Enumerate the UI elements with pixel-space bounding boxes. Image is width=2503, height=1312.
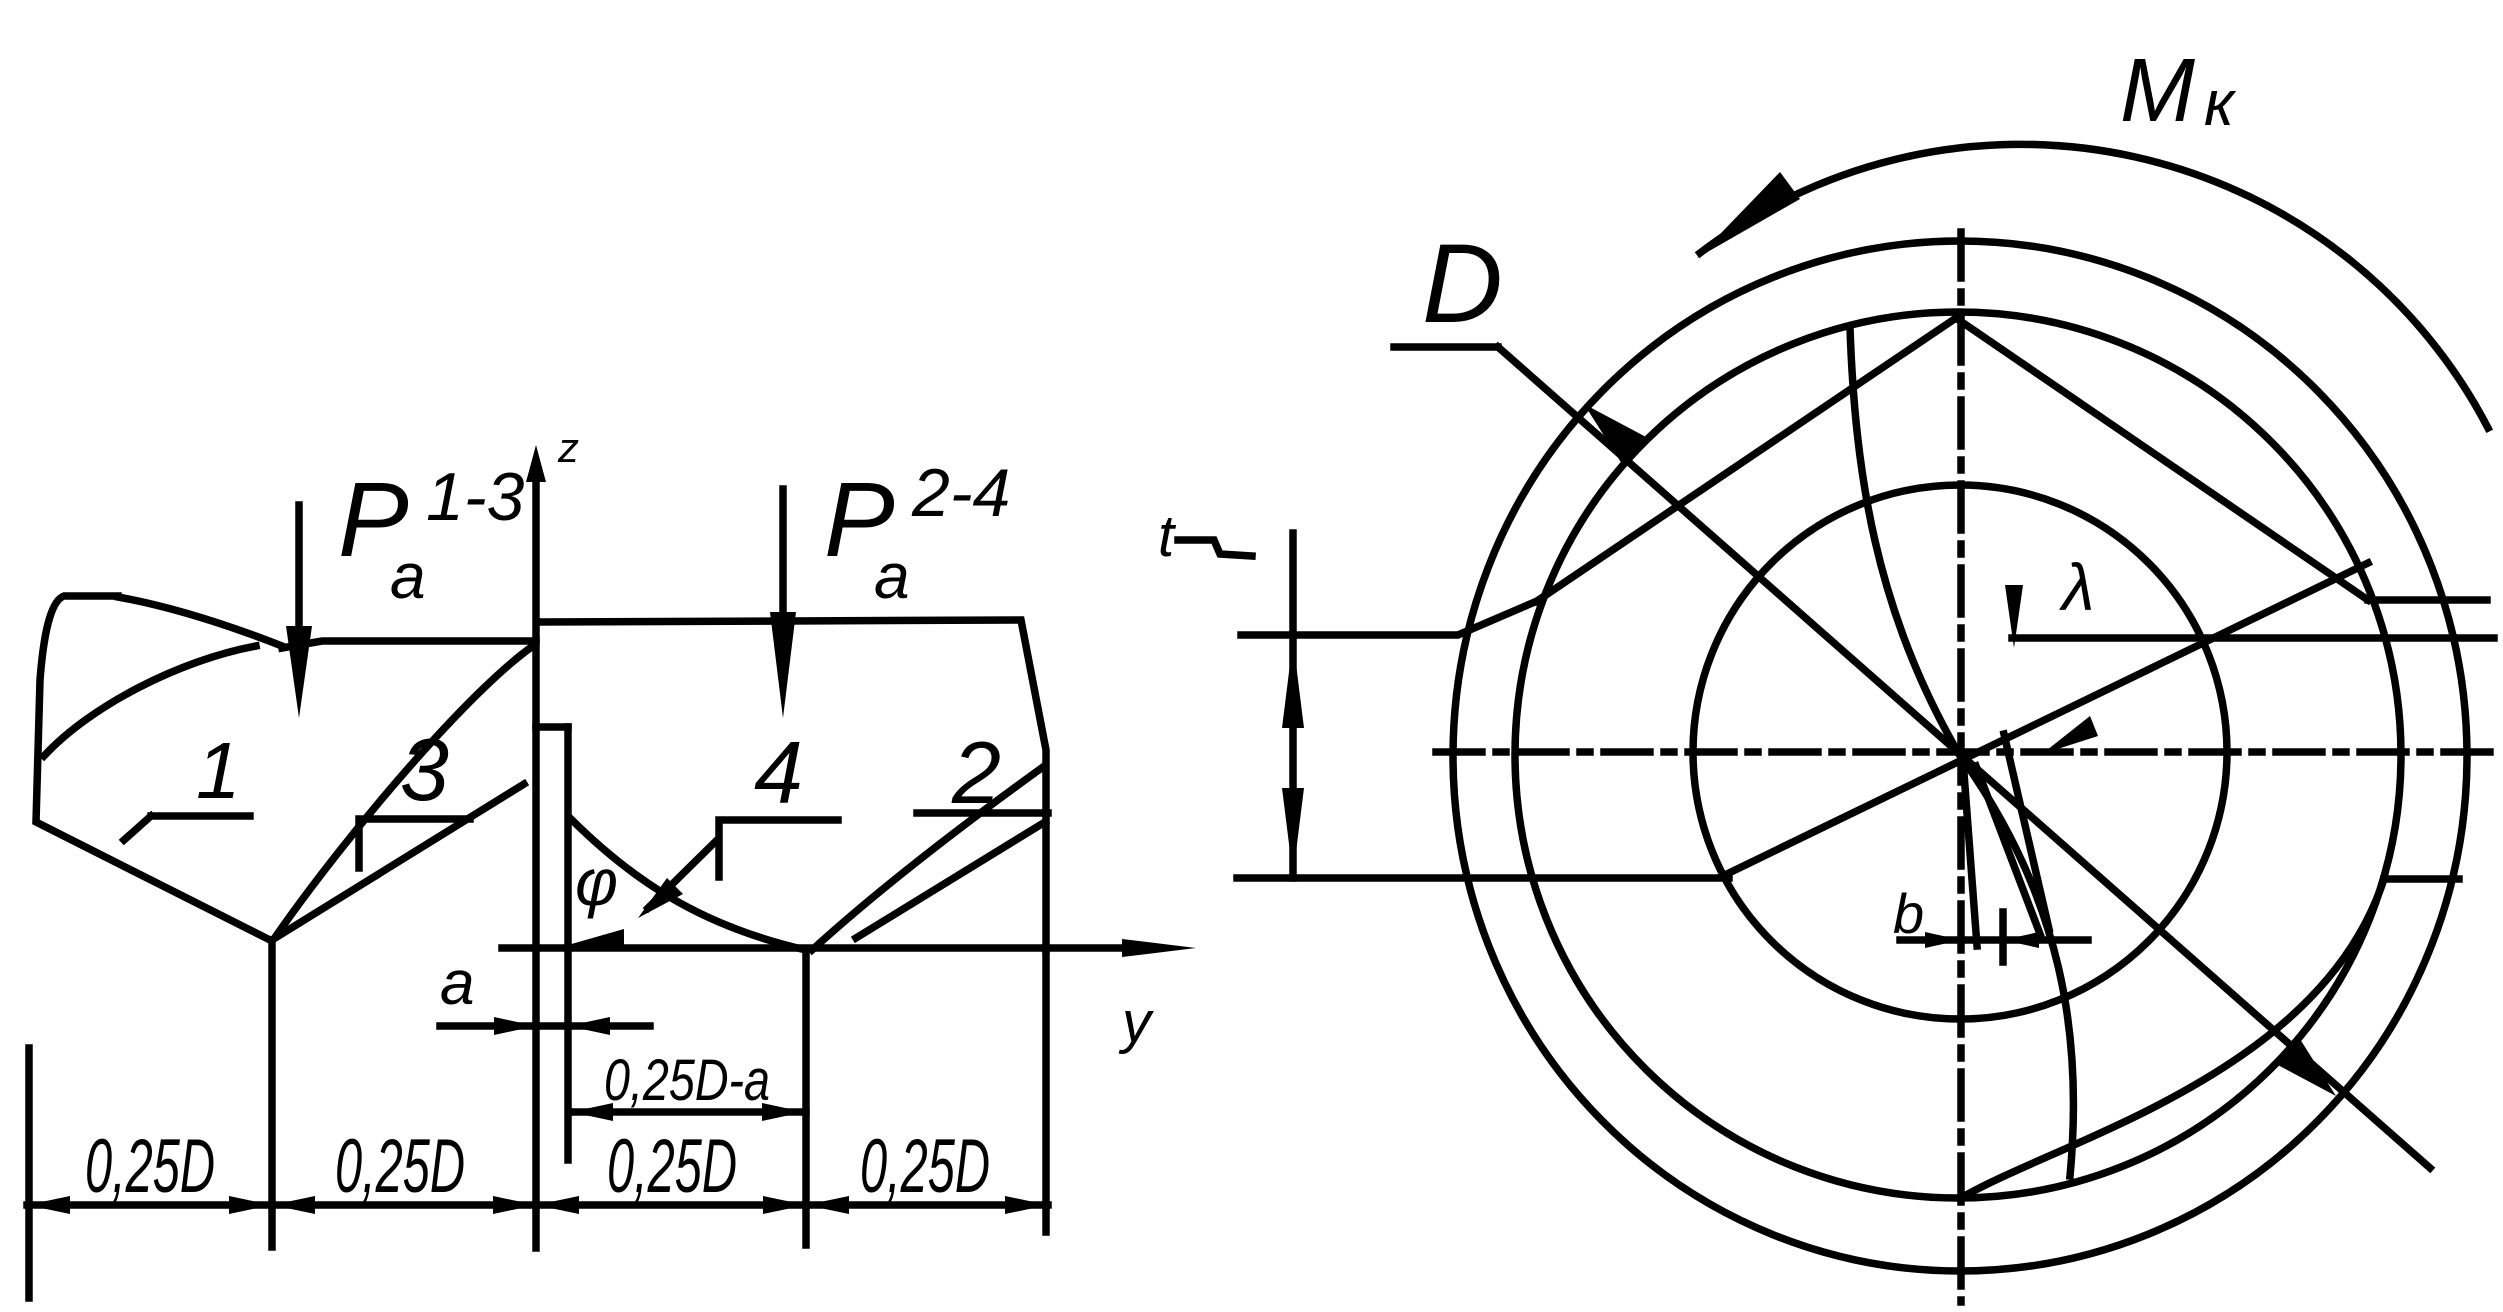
second circle [1515,312,2401,1198]
lambda line end arrow [2005,585,2023,648]
z axis [526,445,546,1248]
svg-text:M: M [2120,41,2195,141]
t extension line [1289,533,1297,878]
flute curve lower [1959,754,2074,1176]
point cone silhouette [1537,318,2368,601]
t arrow down [1282,788,1304,876]
svg-text:0,25D-a: 0,25D-a [604,1048,770,1113]
main dimension line [27,1201,1048,1209]
right band lower line [2384,875,2459,883]
label Pa2-4 [824,455,1010,612]
Mk label [2120,41,2237,141]
svg-text:4: 4 [754,723,803,822]
chisel edge lines [1963,760,1977,946]
svg-text:λ: λ [2059,550,2094,624]
blade4 lip slant [570,818,806,950]
outer circle [1453,241,2467,1271]
lambda center arrow [2042,716,2098,754]
phi baseline arrow [568,929,624,948]
blade3 leading curve [276,646,533,936]
label 2 leader [917,809,1048,817]
b dimension [1900,912,2088,962]
t arrow up [1282,640,1304,728]
right trapezoid top [537,620,1046,950]
label 1 leader [124,816,250,840]
label 3 leader [359,819,470,868]
extension line far left [25,1048,33,1298]
blade2 relief line [856,822,1045,938]
svg-text:a: a [390,540,426,612]
flute tail lower right [1961,879,2384,1198]
extension line right edge [1042,950,1050,1232]
extension line left V [268,940,276,1247]
t label and hook [1158,504,1252,569]
D underline [1394,343,1498,351]
D arrow lower [2274,1036,2336,1096]
svg-text:a: a [440,949,474,1018]
force arrow Pa1-3 [286,505,312,718]
band left lower line [1237,874,1729,882]
svg-text:a: a [874,540,910,612]
flute curve upper [1850,328,1959,754]
svg-text:φ: φ [575,845,618,919]
notch step [536,723,568,731]
svg-text:0,25D: 0,25D [607,1124,737,1209]
svg-text:2: 2 [951,723,1001,822]
inner circle [1693,485,2227,1019]
notch extension line [564,727,572,1160]
svg-text:1: 1 [196,726,241,815]
label 4 leader [719,820,838,877]
blade1 top curve [118,597,282,646]
svg-text:0,25D: 0,25D [85,1124,215,1209]
svg-text:1-3: 1-3 [426,459,524,535]
dim arrows [27,1196,1048,1214]
blade2 lip curve [812,767,1043,950]
label Pa1-3 [338,459,524,612]
dimension 0.25D-a [569,1103,806,1121]
band left upper line [1241,601,1537,635]
svg-text:D: D [1422,221,1503,346]
blade1 inner curve [44,646,256,756]
svg-text:3: 3 [400,720,449,819]
svg-text:y: y [1118,990,1154,1055]
extension line right V [802,950,810,1245]
D arrow upper [1584,404,1646,464]
Mk arrowhead [1697,172,1800,258]
Mk arc [1700,144,2488,428]
top horizontal to z axis [282,641,536,648]
horizontal centerline [1436,748,2492,756]
dimension a [440,1017,650,1035]
svg-text:0,25D: 0,25D [860,1124,990,1209]
lambda line [2012,634,2494,642]
blade3 relief line [272,784,524,940]
left outline top and corner [36,596,270,940]
right band upper line [2368,596,2487,604]
svg-text:z: z [557,424,579,471]
svg-text:2-4: 2-4 [911,455,1010,531]
svg-text:b: b [1893,882,1924,945]
label 4 pointer line [648,842,715,908]
svg-text:к: к [2204,67,2237,139]
svg-text:0,25D: 0,25D [335,1124,465,1209]
lip line [1729,563,2368,873]
D leader line [1498,347,2430,1168]
force arrow Pa2-4 [770,489,796,718]
y axis [502,939,1196,957]
vertical centerline [1957,232,1965,1302]
